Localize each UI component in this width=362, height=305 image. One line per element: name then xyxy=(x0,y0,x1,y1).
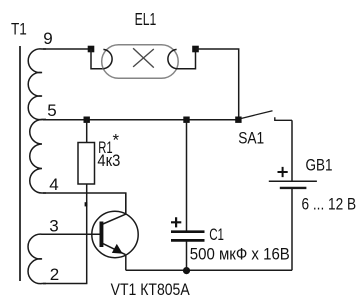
node: junction dot R1 top on net5 xyxy=(84,117,90,123)
wire net5 bus (pin5 to switch) xyxy=(43,119,239,121)
lamp EL1 left electrode arc xyxy=(103,49,112,68)
svg-text:6 ... 12 В: 6 ... 12 В xyxy=(302,194,357,213)
transistor VT1 collector diagonal xyxy=(103,214,126,224)
lamp EL1 X mark xyxy=(133,48,154,67)
node: junction dot C1 bottom xyxy=(183,267,190,274)
switch SA1 lever xyxy=(241,111,273,119)
svg-text:4к3: 4к3 xyxy=(97,151,120,170)
lamp EL1 right electrode arc xyxy=(168,49,177,68)
battery GB1 positive plate xyxy=(269,180,317,182)
svg-text:T1: T1 xyxy=(11,19,27,38)
svg-text:2: 2 xyxy=(50,265,59,284)
svg-text:GB1: GB1 xyxy=(306,155,333,174)
switch SA1 fixed contact xyxy=(275,117,292,120)
capacitor C1 bottom plate xyxy=(171,239,205,242)
svg-text:5: 5 xyxy=(47,101,56,120)
wire battery - to bottom rail xyxy=(291,188,293,270)
node: junction dot C1 top on net5 xyxy=(183,117,189,123)
capacitor C1 bottom lead xyxy=(186,242,188,271)
capacitor C1 top plate xyxy=(171,230,205,233)
svg-text:500 мкФ х 16В: 500 мкФ х 16В xyxy=(190,246,290,264)
wire pin9 to lamp terminal xyxy=(43,48,91,50)
wire bottom rail xyxy=(126,269,292,271)
capacitor C1 plus sign xyxy=(171,217,181,227)
battery GB1 plus sign xyxy=(278,167,288,177)
battery GB1 negative plate xyxy=(280,187,307,189)
transistor VT1 circle xyxy=(92,211,138,257)
wire pin4 to collector xyxy=(43,193,126,214)
wire emitter lead xyxy=(125,254,127,270)
wire R1 bottom lead down to pin2 net xyxy=(86,184,88,284)
svg-text:*: * xyxy=(113,131,120,150)
resistor R1 body xyxy=(78,143,95,185)
wire lamp right electrode lead xyxy=(176,49,196,69)
svg-text:VT1 КТ805А: VT1 КТ805А xyxy=(111,280,191,299)
transistor VT1 emitter arrow xyxy=(113,245,122,254)
node: junction dot SA1 pivot on net5 xyxy=(235,117,241,123)
transistor VT1 base bar xyxy=(100,222,104,248)
wire SA1 contact to battery + xyxy=(291,120,293,181)
wire lamp left electrode lead xyxy=(91,49,104,69)
T1 winding 3-2 xyxy=(28,234,46,283)
svg-text:3: 3 xyxy=(49,216,58,235)
node: lamp left terminal dot xyxy=(88,46,95,53)
T1 winding 9-5 xyxy=(28,49,46,120)
wire pin2 horizontal xyxy=(43,283,87,285)
wire pin3 to base xyxy=(43,233,100,235)
svg-text:EL1: EL1 xyxy=(135,9,157,29)
wire lamp right terminal to SA1 node xyxy=(196,49,239,120)
stray blob on R1 lead xyxy=(85,202,88,206)
svg-text:9: 9 xyxy=(43,29,52,48)
wire collector lead xyxy=(125,193,127,214)
wire R1 top lead xyxy=(86,120,88,143)
transistor VT1 emitter diagonal xyxy=(103,244,126,255)
svg-text:SA1: SA1 xyxy=(238,129,264,148)
capacitor C1 top lead xyxy=(186,120,188,231)
lamp EL1 bulb outline xyxy=(102,45,179,79)
T1 winding 5-4 xyxy=(30,120,46,194)
node: lamp right terminal dot xyxy=(192,46,199,53)
svg-text:4: 4 xyxy=(49,175,58,194)
svg-text:С1: С1 xyxy=(209,225,224,244)
transformer T1 core xyxy=(19,46,21,281)
